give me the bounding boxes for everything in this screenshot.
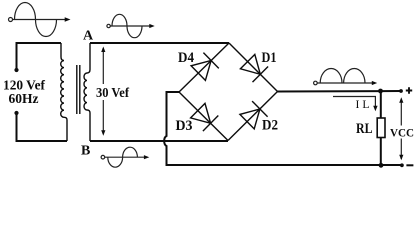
node dot upper (14, 68, 18, 72)
transformer secondary winding (84, 43, 90, 141)
junction dot bottom (379, 163, 384, 168)
wire B to bridge bottom (90, 140, 228, 142)
svg-text:30 Vef: 30 Vef (96, 86, 129, 101)
minus sign (406, 164, 413, 166)
diode D4 (191, 53, 219, 81)
wire bottom rail (166, 164, 402, 166)
diode D1 (240, 54, 268, 82)
wire A to bridge top (90, 42, 229, 44)
svg-text:A: A (83, 29, 94, 44)
svg-text:B: B (81, 144, 90, 159)
svg-text:D4: D4 (178, 50, 194, 66)
AC source sine symbol (primary) (9, 3, 71, 37)
diode D2 (240, 101, 268, 129)
node dot lower (14, 111, 18, 115)
svg-text:RL: RL (356, 121, 373, 137)
IL current arrow (333, 97, 378, 112)
wire bridge right vertex to load (278, 90, 402, 93)
wire primary loop top (17, 42, 62, 44)
terminal dot - (400, 163, 404, 167)
VCC measure arrow (399, 97, 403, 160)
rectified waveform symbol (314, 69, 378, 86)
transformer core (76, 65, 78, 114)
svg-text:D3: D3 (176, 118, 193, 134)
transformer primary winding (61, 43, 67, 141)
diode D3 (191, 103, 219, 131)
plus sign (406, 87, 412, 93)
terminal dot + (399, 89, 403, 93)
wire RL chain vertical (380, 91, 382, 118)
svg-text:D1: D1 (262, 50, 277, 66)
wire primary loop left upper (16, 42, 18, 70)
sine symbol at A (107, 14, 155, 37)
resistor RL (377, 118, 385, 138)
sine symbol at B (inverted) (101, 147, 149, 167)
wire bridge left vertex down with hop over B wire (164, 92, 179, 165)
svg-text:60Hz: 60Hz (9, 92, 39, 107)
svg-text:D2: D2 (262, 118, 278, 134)
bridge diamond edges (179, 43, 229, 92)
30 Vef measure arrow (101, 47, 105, 136)
wire primary loop bottom (17, 140, 68, 142)
svg-text:VCC: VCC (390, 125, 414, 139)
junction dot top (378, 89, 383, 94)
svg-text:I L: I L (356, 99, 370, 111)
wire primary loop left lower (16, 113, 18, 142)
